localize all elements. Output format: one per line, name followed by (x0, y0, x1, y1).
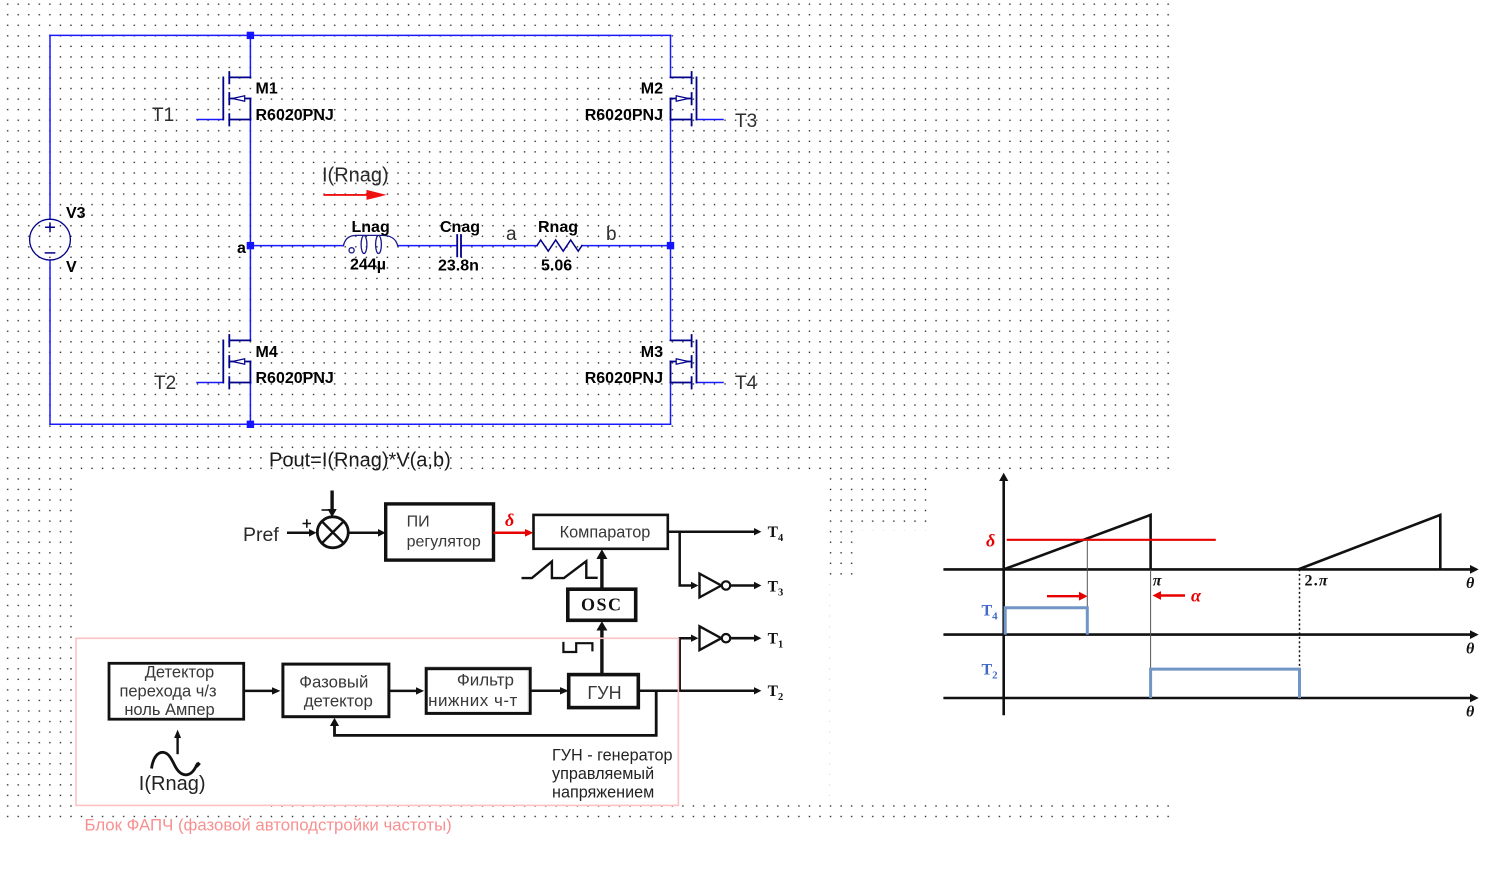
T4 pulse (1005, 608, 1087, 635)
label Lnag refdes (352, 219, 390, 236)
label V3 value (66, 259, 77, 276)
dotted marker line at 2pi (1299, 569, 1301, 700)
block phase detector (283, 664, 389, 717)
wire VCO to T2 (638, 687, 761, 694)
svg-text:ПИ: ПИ (407, 514, 430, 531)
svg-text:T1: T1 (152, 105, 174, 126)
svg-text:23.8n: 23.8n (438, 258, 479, 275)
wire gate lead T3 (697, 119, 724, 121)
svg-text:Т4: Т4 (768, 524, 784, 544)
label T1 output (768, 631, 784, 651)
svg-text:перехода ч/з: перехода ч/з (119, 683, 216, 701)
svg-text:Т3: Т3 (768, 579, 784, 599)
wire inverter to T3 (730, 582, 761, 589)
block zero crossing detector (109, 663, 244, 719)
wire bottom rail (50, 423, 671, 425)
label Pout formula (269, 450, 451, 472)
svg-text:напряжением: напряжением (552, 784, 654, 802)
thin marker line at pi (1150, 569, 1152, 669)
label Rnag refdes (538, 219, 578, 236)
transistor M3 (671, 335, 697, 389)
wire gate lead T4 (697, 382, 724, 384)
svg-text:V: V (66, 259, 77, 276)
square wave icon (563, 642, 592, 652)
svg-text:Т2: Т2 (982, 662, 999, 682)
wire filter to VCO (530, 687, 569, 694)
label net b mid (606, 224, 617, 245)
svg-text:OSC: OSC (581, 594, 623, 614)
label theta axis2 (1466, 641, 1475, 658)
wire branch down to T3 inverter (680, 532, 699, 590)
label theta axis1 (1466, 575, 1475, 592)
wire comparator to T4 (668, 528, 762, 535)
label phase detector text (299, 672, 373, 710)
label theta axis3 (1466, 704, 1475, 721)
block OSC (568, 589, 636, 620)
label M3 value R6020PNJ (585, 370, 663, 387)
voltage source V3 (30, 219, 71, 260)
junction node b right (667, 242, 674, 249)
svg-text:θ: θ (1466, 641, 1475, 658)
wire phase detector to filter (389, 687, 424, 694)
label net T3 (735, 111, 757, 132)
svg-text:Т1: Т1 (768, 631, 784, 651)
svg-text:Детектор: Детектор (145, 664, 214, 682)
svg-text:b: b (606, 224, 617, 245)
sawtooth ramp 1 (1004, 515, 1151, 570)
label net T4 (735, 373, 758, 394)
wire red delta PI to comparator (494, 529, 534, 537)
red arrow left (alpha) (1153, 591, 1186, 600)
label I(Rnag) input (139, 773, 206, 795)
label node a at left junction (237, 240, 246, 257)
PLL pink boundary box (76, 638, 678, 805)
wire feedback into summer top (328, 491, 337, 518)
wire Rnag to right rail (582, 245, 671, 247)
wire Cnag to Rnag (462, 245, 538, 247)
block VCO (GUN) (569, 675, 639, 708)
label net a mid (506, 224, 517, 245)
transistor M1 (223, 72, 250, 126)
svg-text:нижних ч-т: нижних ч-т (428, 691, 518, 710)
label OSC text (581, 594, 623, 614)
label Rnag value (541, 258, 572, 275)
svg-text:ГУН - генератор: ГУН - генератор (552, 747, 673, 765)
svg-text:Фильтр: Фильтр (457, 671, 514, 690)
svg-text:Т4: Т4 (982, 603, 999, 623)
svg-text:Фазовый: Фазовый (299, 672, 368, 691)
svg-text:Pref: Pref (243, 524, 279, 546)
label T3 output (768, 579, 784, 599)
svg-text:ноль Ампер: ноль Ампер (124, 701, 214, 719)
svg-text:M3: M3 (641, 344, 663, 361)
label net T2 (154, 373, 176, 394)
sine wave icon (152, 752, 200, 774)
wire detector to phase detector (243, 687, 281, 694)
label T2 pulse (982, 662, 999, 682)
block PI regulator (386, 504, 494, 560)
svg-text:α: α (1191, 586, 1202, 606)
wire VCO to OSC (596, 621, 607, 674)
label comparator text (560, 524, 651, 542)
svg-text:I(Rnag): I(Rnag) (322, 165, 389, 187)
label plus sign (303, 519, 312, 527)
svg-text:Pout=I(Rnag)*V(a,b): Pout=I(Rnag)*V(a,b) (269, 450, 451, 472)
label Cnag value (438, 258, 479, 275)
wire Lnag to Cnag (398, 245, 457, 247)
svg-text:Блок ФАПЧ (фазовой автоподстро: Блок ФАПЧ (фазовой автоподстройки частот… (85, 816, 452, 835)
svg-text:Rnag: Rnag (538, 219, 578, 236)
svg-text:Cnag: Cnag (440, 219, 480, 236)
SCHEMATIC (30, 32, 723, 428)
wire right bridge rail (670, 35, 672, 424)
label alpha (1191, 586, 1202, 606)
label pi (1153, 573, 1163, 590)
red current arrow I(Rnag) (324, 190, 386, 200)
thin marker line at delta crossing (1086, 540, 1088, 635)
wire branch up to T1 inverter (680, 635, 699, 691)
BLOCK DIAGRAM (76, 491, 761, 806)
label minus sign (322, 509, 330, 511)
label M4 refdes (256, 344, 278, 361)
label VCO explanation (552, 747, 673, 802)
label V3 refdes (66, 205, 86, 222)
axis theta 3 (943, 694, 1478, 703)
wire gate lead T1 (197, 119, 223, 121)
wire summer to PI block (348, 529, 385, 537)
wire left bridge rail (249, 35, 251, 424)
svg-text:π: π (1153, 573, 1163, 590)
svg-text:V3: V3 (66, 205, 86, 222)
inverter T1 (700, 626, 731, 650)
svg-text:T3: T3 (735, 111, 757, 132)
red delta level line (1007, 539, 1216, 541)
transistor M4 (223, 335, 250, 389)
label Pref (243, 524, 279, 546)
svg-text:δ: δ (505, 510, 514, 530)
label detector text (119, 664, 216, 720)
sawtooth icon (522, 561, 598, 578)
inverter T3 (700, 574, 731, 598)
wire feedback VCO to phase detector (330, 691, 656, 736)
wire top rail (50, 34, 671, 36)
wire gate lead T2 (197, 382, 223, 384)
label PLL block caption (85, 816, 452, 835)
axis vertical (999, 473, 1008, 715)
svg-text:T4: T4 (735, 373, 758, 394)
svg-text:I(Rnag): I(Rnag) (139, 773, 206, 795)
svg-text:ГУН: ГУН (587, 683, 621, 703)
label filter text (428, 671, 518, 711)
svg-text:R6020PNJ: R6020PNJ (585, 107, 663, 124)
svg-text:управляемый: управляемый (552, 765, 654, 783)
svg-text:M2: M2 (641, 81, 663, 98)
transistor M2 (671, 72, 697, 126)
wire Pref to summer (287, 529, 317, 537)
label Lnag value (350, 257, 386, 274)
block comparator (534, 515, 668, 549)
wire mid branch a-node to Lnag (250, 245, 343, 247)
svg-text:θ: θ (1466, 704, 1475, 721)
inductor Lnag (343, 235, 397, 253)
label M3 refdes (641, 344, 663, 361)
wire left vertical upper (V3 plus to top rail) (49, 35, 51, 219)
label M2 value R6020PNJ (585, 107, 663, 124)
label M1 value R6020PNJ (256, 107, 334, 124)
svg-text:2.π: 2.π (1305, 573, 1329, 590)
svg-text:5.06: 5.06 (541, 258, 572, 275)
wire OSC to comparator (596, 549, 607, 589)
junction node top rail (247, 32, 254, 39)
svg-text:244µ: 244µ (350, 257, 386, 274)
capacitor Cnag (457, 235, 461, 256)
label T4 pulse (982, 603, 999, 623)
label M2 refdes (641, 81, 663, 98)
label M1 refdes (256, 81, 278, 98)
label net T1 (152, 105, 174, 126)
summing junction (317, 517, 348, 548)
axis theta 2 (943, 630, 1478, 639)
svg-text:R6020PNJ: R6020PNJ (256, 107, 334, 124)
label PI regulator text (407, 514, 481, 551)
TIMING DIAGRAM (943, 473, 1478, 715)
label delta red (505, 510, 514, 530)
label T2 output (768, 683, 784, 703)
svg-text:a: a (506, 224, 517, 245)
T2 pulse (1151, 669, 1300, 698)
label VCO text (587, 683, 621, 703)
label M4 value R6020PNJ (256, 370, 334, 387)
svg-text:δ: δ (986, 531, 995, 551)
label T4 output (768, 524, 784, 544)
resistor Rnag (537, 240, 582, 251)
axis theta 1 (943, 565, 1478, 574)
junction node bottom rail (247, 421, 254, 428)
label delta on axis (986, 531, 995, 551)
svg-text:Lnag: Lnag (352, 219, 390, 236)
svg-text:M4: M4 (256, 344, 278, 361)
svg-text:T2: T2 (154, 373, 176, 394)
svg-text:M1: M1 (256, 81, 278, 98)
svg-text:детектор: детектор (304, 692, 373, 711)
wire sine input arrow to detector (174, 730, 181, 755)
svg-text:регулятор: регулятор (407, 534, 481, 551)
wire inverter to T1 (730, 635, 761, 642)
wire left vertical lower (V3 minus to bottom rail) (49, 260, 51, 424)
svg-text:Т2: Т2 (768, 683, 784, 703)
junction node a left (247, 242, 254, 249)
svg-text:a: a (237, 240, 246, 257)
label I(Rnag) current (322, 165, 389, 187)
svg-text:θ: θ (1466, 575, 1475, 592)
red arrow right (alpha shift) (1047, 592, 1088, 601)
label 2pi (1305, 573, 1329, 590)
svg-text:R6020PNJ: R6020PNJ (585, 370, 663, 387)
svg-text:R6020PNJ: R6020PNJ (256, 370, 334, 387)
svg-text:Компаратор: Компаратор (560, 524, 651, 542)
block low pass filter (425, 667, 532, 713)
label Cnag refdes (440, 219, 480, 236)
sawtooth ramp 2 (1298, 515, 1440, 570)
